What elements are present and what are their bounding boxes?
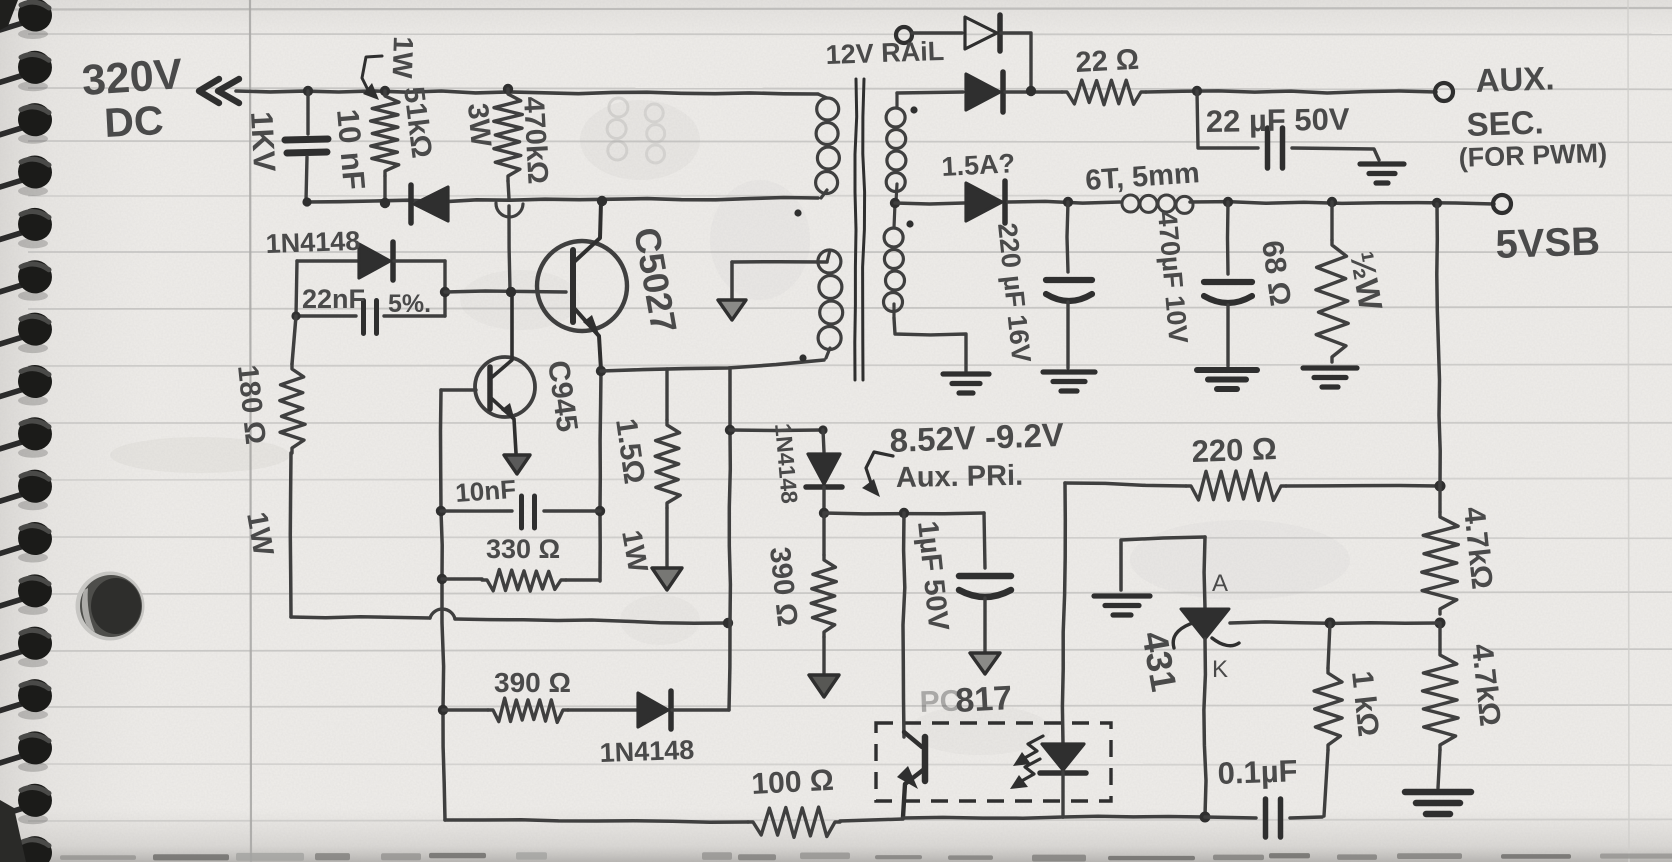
node 5VSB rail [1432,198,1442,208]
svg-text:10 nF: 10 nF [330,108,372,192]
wire winding B top [732,262,827,299]
resistor R4 180R [280,316,305,617]
wire snubber left rail [296,261,297,316]
svg-text:1N4148: 1N4148 [599,735,695,768]
svg-text:8.52V -9.2V: 8.52V -9.2V [889,416,1064,459]
svg-text:470kΩ: 470kΩ [517,96,554,185]
svg-text:SEC.: SEC. [1466,103,1544,143]
LED arrows [1010,736,1043,789]
node cap C1 bottom [302,197,311,206]
wire LED to 431 K [1063,815,1204,819]
diode D7 1N4148 vertical [806,430,842,512]
node 431 K bottom [1200,812,1211,823]
ground R8 [1303,365,1357,370]
wire 220R row [1065,483,1186,486]
wire R2 bottom to Q1 base [508,181,510,290]
right crease [1628,0,1629,862]
svg-text:5VSB: 5VSB [1495,219,1601,267]
spiral coil 14 [0,676,55,720]
svg-text:A: A [1212,570,1228,597]
spiral coil 1 [0,0,55,39]
svg-text:Aux. PRi.: Aux. PRi. [896,460,1024,494]
spiral coil 13 [0,624,55,668]
wire 5VSB rail down [1437,204,1440,486]
inductor L1 6T [1122,195,1193,213]
spiral coil 9 [0,414,55,458]
node R1 bottom [380,198,390,208]
diode D1 [411,185,448,223]
wire Q2 base [441,388,476,391]
winding D 5vsb sec [884,203,905,318]
wire R12 to ground [1438,750,1440,788]
ground winding D return [943,371,989,376]
spiral coil 8 [0,362,55,406]
ruled lines [28,33,1672,36]
wire 220R to rail [1286,484,1438,488]
svg-text:22 µF 50V: 22 µF 50V [1206,101,1351,139]
wire bottom left [445,820,748,823]
svg-text:12V RAiL: 12V RAiL [825,36,945,70]
svg-text:22nF: 22nF [302,284,365,314]
wire emitter to winding B [601,360,824,371]
terminal 12V rail [896,27,912,43]
arrow Q2 emitter to node [504,455,530,474]
wire 12V to D4 [912,31,962,34]
svg-text:390 Ω: 390 Ω [494,667,571,698]
diode D6 1.5A [966,181,1005,223]
svg-text:22 Ω: 22 Ω [1075,44,1140,79]
wire drive rail [306,198,818,203]
spiral binding [0,0,55,862]
capacitor C4 22uF [1197,91,1379,168]
wire winding B entry [827,250,830,262]
resistor R8 68R [1316,202,1348,362]
winding C aux sec [886,93,906,202]
winding B aux primary [818,250,843,358]
capacitor C7 1uF 50V [959,513,1011,652]
diode D3 1N4148 [568,691,729,729]
spiral coil 3 [0,100,55,144]
wire L1 to 5VSB terminal [1190,202,1494,204]
hole punch [76,572,145,641]
node 390R left [438,705,448,715]
wire winding A bottom [821,190,827,198]
svg-text:(FOR PWM): (FOR PWM) [1458,138,1607,173]
resistor R11 4.7k upper [1422,486,1459,614]
top-left page corner shadow [0,0,18,30]
wire winding to D6 [895,203,964,204]
arrow to 320V DC [199,79,239,103]
wire D6 to L1 [1008,201,1120,203]
node 10nF right [595,506,605,516]
svg-text:DC: DC [103,97,165,146]
resistor R12 4.7k lower [1423,623,1459,750]
spiral coil 17 [0,833,55,862]
wire Q1 emitter rail [600,370,601,581]
label PC817 [919,679,1013,720]
arrow winding B node [718,300,746,320]
phototransistor Q3 [897,732,925,817]
svg-text:5%.: 5%. [388,290,431,318]
wire winding C to D5 [897,92,963,93]
svg-text:1KV: 1KV [244,111,282,173]
node divider top [1435,481,1446,492]
node D7 top [818,425,827,434]
svg-text:1.5A?: 1.5A? [941,148,1016,182]
wire U2 anode to ground [1121,537,1205,590]
node C4 top [1192,86,1202,96]
wire K to C8 [1205,817,1256,818]
shunt regulator U2 431 [1173,537,1239,816]
spiral coil 6 [0,257,55,301]
net label 320V DC [80,50,184,146]
resistor R13 1k [1314,623,1342,816]
svg-text:1N4148: 1N4148 [265,226,361,259]
dot winding A [794,209,801,216]
resistor R2 470k [494,89,523,181]
svg-text:AUX.: AUX. [1475,59,1555,99]
node aux pri [819,508,829,518]
ground R12 [1405,789,1471,796]
resistor R14 100R [748,807,840,837]
wire top 320V rail [236,91,818,94]
erased ghost windings [607,98,665,163]
dot winding B [799,354,806,361]
node divider mid [1435,618,1446,629]
svg-text:100 Ω: 100 Ω [751,764,835,801]
terminal AUX SEC [1435,83,1453,101]
node feedback right [723,618,733,628]
wire feedback row [291,617,728,624]
diode D5 [966,72,1003,112]
wire aux pri row [824,511,984,515]
hop arc at R2 crossing [496,203,523,217]
capacitor C6 470uF 10V [1204,202,1252,366]
arrow C7 bottom [970,653,1000,674]
node R 470k top [503,84,513,94]
capacitor C8 0.1uF [1263,799,1269,837]
resistor R5 390R [443,698,568,722]
node Q1 collector [597,196,607,206]
svg-text:220 Ω: 220 Ω [1191,431,1277,469]
paper smudges [110,437,290,473]
svg-text:817: 817 [954,679,1013,720]
node 330R left [437,574,447,584]
node Q2 collector top [506,287,516,297]
wire C8 to 1k [1290,817,1322,818]
capacitor C1 10nF 1KV [285,91,328,201]
node 1k top [1325,618,1336,629]
node winding CD [890,198,900,208]
transistor Q2 C945 [475,294,535,453]
spiral coil 2 [0,48,55,92]
svg-text:1 kΩ: 1 kΩ [1345,669,1385,738]
bottom-left page corner shadow [0,800,26,862]
node R 51k top [380,86,390,96]
spiral coil 5 [0,205,55,249]
arrow to R1 [362,56,382,94]
node C6 top [1223,197,1233,207]
spiral coil 16 [0,781,55,825]
wire left rail [441,390,446,820]
node Q1 base junction right [440,287,450,297]
wire opto emitter to LED [903,817,1063,818]
dot winding D [906,220,913,227]
node Q1 emitter [596,366,606,376]
wire snubber right rail [443,261,446,316]
node D4 D5 join [1026,86,1036,96]
winding A primary [816,94,840,194]
spiral coil 4 [0,152,55,196]
spiral coil 7 [0,309,55,353]
ground U2 anode [1094,593,1150,598]
hop arc over left rail [430,609,455,619]
ground C6 [1197,367,1257,373]
svg-text:1W: 1W [387,36,419,80]
svg-text:3W: 3W [461,102,497,149]
spiral coil 10 [0,467,55,511]
wire opto collector [903,513,905,737]
optocoupler box PC817 [876,723,1111,801]
bottom page edge speckle [60,855,136,860]
ground C4 [1360,161,1404,166]
capacitor C3 10nF [441,496,600,528]
wire 100R to opto emitter [840,819,903,821]
ground C5 [1043,369,1095,374]
capacitor C5 220uF 16V [1046,202,1092,368]
node R8 top [1327,197,1337,207]
svg-text:10nF: 10nF [454,474,517,508]
svg-text:K: K [1212,656,1228,683]
wire winding D return [894,318,966,371]
svg-text:0.1µF: 0.1µF [1217,753,1298,791]
LED D8 [1040,744,1086,817]
terminal 5VSB [1493,195,1511,213]
resistor R3 330R [442,570,600,592]
resistor R10 220R [1186,471,1286,501]
vertical crease [250,0,251,862]
node 10nF left [436,506,446,516]
diode D2 1N4148 [297,242,445,280]
wire D4 to node [1001,33,1031,90]
wire D5 to R7 [1005,90,1062,93]
wire aux takeoff [730,428,822,432]
node opto collector top [899,508,909,518]
arrow R6 bottom [652,568,682,590]
wire mid rail [729,368,730,710]
node snubber bottom left [291,311,300,320]
resistor R9 390R vertical [811,513,836,673]
arrow R9 bottom [809,675,839,697]
capacitor C2 22nF [296,301,445,334]
transistor Q1 C5027 [537,202,627,370]
resistor R7 22R [1062,80,1146,105]
wire snubber to Q1 base [445,291,566,292]
resistor R6 1.5R [655,369,680,566]
transformer core [855,79,865,380]
wire ref row [1230,622,1440,624]
wire LED anode rail [1062,483,1065,744]
spiral coil 15 [0,728,55,772]
spiral coil 12 [0,571,55,615]
svg-text:330 Ω: 330 Ω [486,534,560,564]
arrow to aux node [862,452,893,497]
node aux takeoff [725,425,735,435]
node cap C1 top [303,86,313,96]
diode D4 [965,15,1000,51]
node C5 top [1063,197,1073,207]
svg-text:320V: 320V [80,50,184,105]
dot winding C [910,106,917,113]
wire R7 to AUX terminal [1146,91,1436,93]
spiral coil 11 [0,519,55,563]
resistor R1 51k [371,91,399,201]
